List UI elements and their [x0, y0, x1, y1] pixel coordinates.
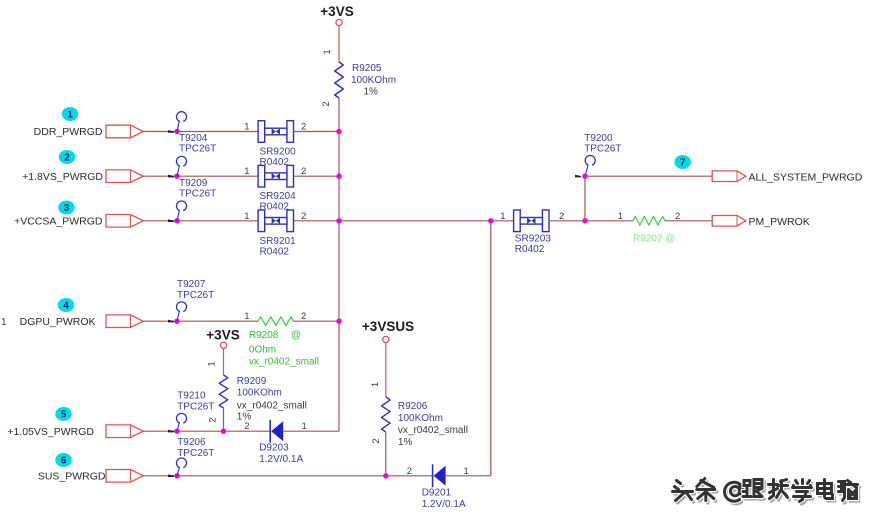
svg-text:vx_r0402_small: vx_r0402_small: [398, 425, 468, 436]
junction: [174, 473, 179, 478]
testpoint T9209 TPC26T: [177, 166, 179, 176]
svg-text:100KOhm: 100KOhm: [237, 388, 282, 399]
wire: [294, 175, 340, 177]
junction on +3VS bus: [336, 129, 341, 134]
svg-text:SR9204: SR9204: [260, 191, 297, 202]
svg-text:2: 2: [321, 101, 332, 106]
svg-text:1: 1: [244, 311, 249, 322]
svg-text:7: 7: [680, 158, 686, 169]
svg-text:SR9201: SR9201: [260, 236, 297, 247]
svg-text:+VCCSA_PWRGD: +VCCSA_PWRGD: [14, 216, 103, 228]
wire: [584, 176, 586, 221]
svg-text:+1.8VS_PWRGD: +1.8VS_PWRGD: [22, 171, 103, 183]
junctions: [174, 429, 179, 434]
svg-text:D9203: D9203: [259, 443, 289, 454]
svg-text:TPC26T: TPC26T: [179, 188, 216, 199]
node SR9203 input junction: [488, 218, 493, 223]
svg-text:DDR_PWRGD: DDR_PWRGD: [34, 126, 103, 138]
svg-text:5: 5: [61, 410, 67, 421]
wire: [294, 131, 340, 133]
svg-text:1%: 1%: [398, 437, 413, 448]
svg-text:R9206: R9206: [398, 401, 428, 412]
svg-text:1: 1: [67, 110, 73, 121]
svg-text:SUS_PWRGD: SUS_PWRGD: [38, 471, 106, 483]
svg-text:2: 2: [371, 438, 382, 443]
svg-text:+3VS: +3VS: [206, 328, 239, 343]
svg-text:1: 1: [1, 317, 7, 328]
junction: [174, 218, 179, 223]
svg-text:T9209: T9209: [179, 178, 208, 189]
jumper SR9200 R0402: [258, 121, 293, 143]
testpoint T9206 TPC26T: [177, 467, 179, 475]
jumper SR9204 R0402: [258, 165, 293, 187]
svg-text:2: 2: [559, 211, 564, 222]
resistor R9205 100KOhm 1%: [335, 62, 344, 98]
wire: [585, 175, 712, 177]
junction: [174, 319, 179, 324]
wire: [549, 220, 633, 222]
wire: [665, 220, 712, 222]
svg-text:100KOhm: 100KOhm: [398, 413, 443, 424]
svg-text:1: 1: [244, 166, 249, 177]
svg-text:vx_r0402_small: vx_r0402_small: [249, 357, 319, 368]
node +VCCSA_PWRGD input: [58, 201, 74, 215]
junction on +3VS bus: [336, 319, 341, 324]
svg-text:T9200: T9200: [584, 133, 613, 144]
jumper SR9201 R0402: [258, 210, 293, 232]
svg-text:R0402: R0402: [260, 246, 290, 257]
svg-text:4: 4: [63, 301, 69, 312]
svg-text:R9208: R9208: [249, 330, 279, 341]
node SUS_PWRGD input: [55, 453, 71, 467]
svg-text:2: 2: [301, 166, 306, 177]
svg-text:1: 1: [322, 49, 333, 54]
svg-text:SR9200: SR9200: [260, 147, 297, 158]
node +1.8VS_PWRGD input: [59, 150, 75, 164]
svg-text:T9204: T9204: [179, 133, 208, 144]
svg-text:1: 1: [500, 211, 505, 222]
wire: [143, 320, 258, 322]
junction on +3VS bus: [336, 174, 341, 179]
junction: [174, 129, 179, 134]
svg-text:1: 1: [302, 421, 307, 432]
svg-text:1%: 1%: [364, 87, 379, 98]
svg-text:+3VSUS: +3VSUS: [362, 319, 414, 334]
svg-text:1: 1: [370, 382, 381, 387]
wire: [223, 348, 225, 375]
svg-text:3: 3: [64, 203, 70, 214]
svg-text:ALL_SYSTEM_PWRGD: ALL_SYSTEM_PWRGD: [749, 171, 863, 183]
testpoint T9210 TPC26T: [177, 423, 179, 431]
resistor R9209 100KOhm: [219, 375, 228, 408]
wire: [143, 475, 432, 477]
svg-text:D9201: D9201: [422, 487, 452, 498]
testpoint T9207 TPC26T: [177, 311, 179, 321]
svg-text:TPC26T: TPC26T: [177, 290, 214, 301]
node +3VSUS junction: [383, 473, 388, 478]
svg-text:R9205: R9205: [352, 63, 382, 74]
svg-text:2: 2: [301, 211, 306, 222]
junction on +3VS bus: [336, 218, 341, 223]
wire: [385, 343, 387, 397]
svg-text:2: 2: [244, 421, 249, 432]
testpoint T9204 TPC26T: [177, 121, 179, 131]
svg-text:2: 2: [407, 466, 412, 477]
svg-text:TPC26T: TPC26T: [584, 144, 621, 155]
svg-text:1.2V/0.1A: 1.2V/0.1A: [259, 454, 303, 465]
svg-text:@: @: [291, 330, 301, 341]
svg-text:TPC26T: TPC26T: [177, 402, 214, 413]
resistor R9206 100KOhm: [382, 397, 391, 432]
wire: [294, 220, 514, 222]
wire: [143, 175, 258, 177]
svg-text:TPC26T: TPC26T: [177, 448, 214, 459]
svg-text:R0402: R0402: [515, 244, 545, 255]
wire : main +3VS vertical bus: [338, 26, 340, 62]
svg-text:2: 2: [64, 153, 70, 164]
wire: [143, 220, 258, 222]
node ALL_SYSTEM_PWRGD output: [675, 155, 691, 169]
svg-text:+1.05VS_PWRGD: +1.05VS_PWRGD: [7, 426, 94, 438]
svg-text:T9207: T9207: [177, 279, 206, 290]
wire: [143, 430, 270, 432]
svg-text:100KOhm: 100KOhm: [351, 75, 396, 86]
svg-text:2: 2: [301, 311, 306, 322]
node PM_PWROK output: [712, 216, 746, 227]
svg-text:T9210: T9210: [177, 391, 206, 402]
svg-text:0Ohm: 0Ohm: [249, 345, 276, 356]
svg-text:R9202 @: R9202 @: [633, 233, 675, 244]
node +1.05VS_PWRGD input: [55, 407, 71, 421]
watermark 头条@跟我学电脑: [673, 481, 695, 503]
wire: [446, 475, 491, 477]
svg-text:T9206: T9206: [177, 437, 206, 448]
svg-text:2: 2: [301, 122, 306, 133]
svg-text:vx_r0402_small: vx_r0402_small: [237, 401, 307, 412]
svg-text:2: 2: [208, 417, 219, 422]
svg-text:TPC26T: TPC26T: [179, 144, 216, 155]
junction: [582, 218, 587, 223]
svg-text:6: 6: [61, 456, 67, 467]
wire: [143, 131, 258, 133]
svg-text:R9209: R9209: [237, 376, 267, 387]
svg-text:SR9203: SR9203: [515, 233, 552, 244]
svg-text:2: 2: [675, 211, 680, 222]
svg-text:1: 1: [244, 122, 249, 133]
svg-text:1: 1: [618, 211, 623, 222]
svg-text:1.2V/0.1A: 1.2V/0.1A: [422, 499, 466, 510]
node DDR_PWRGD input: [62, 107, 78, 121]
svg-text:1: 1: [207, 361, 218, 366]
svg-text:DGPU_PWROK: DGPU_PWROK: [20, 316, 96, 328]
svg-text:1: 1: [464, 466, 469, 477]
testpoint (unlabeled) TPC26T: [177, 211, 179, 221]
wire: [283, 430, 339, 432]
svg-text:1: 1: [244, 211, 249, 222]
svg-text:+3VS: +3VS: [320, 4, 353, 19]
svg-text:PM_PWROK: PM_PWROK: [749, 216, 810, 228]
junction: [174, 174, 179, 179]
